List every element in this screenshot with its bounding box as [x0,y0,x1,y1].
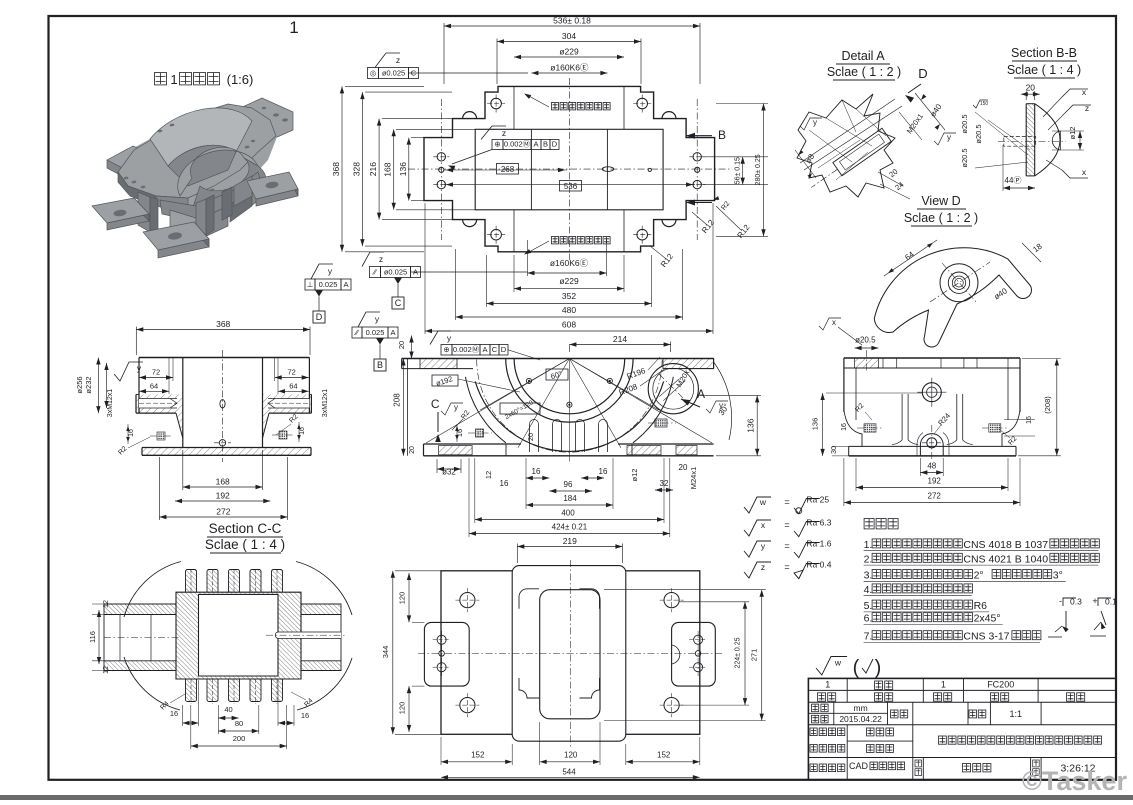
svg-text:192: 192 [928,477,942,486]
svg-text:ø20.5: ø20.5 [974,124,983,143]
svg-text:Ra 1.6: Ra 1.6 [806,538,831,548]
svg-text:80: 80 [235,719,243,728]
svg-text:B: B [543,140,548,149]
svg-text:-: - [1059,596,1062,606]
bore wall lines [530,129,532,210]
corner hooks [519,589,539,609]
svg-text:M24x1: M24x1 [689,467,698,490]
svg-text:0.025: 0.025 [319,280,338,289]
svg-text:A: A [343,280,348,289]
3D isometric part label [155,73,167,85]
bottom teeth band [176,694,301,696]
svg-text:(1:6): (1:6) [227,72,254,87]
svg-text:3.: 3. [864,570,873,582]
svg-text:y: y [813,118,817,127]
datum flag //-0.025-A lower [370,267,381,278]
tab hole trios [437,635,446,644]
svg-text:192: 192 [216,491,230,501]
svg-text:A: A [533,140,538,149]
svg-text:20: 20 [526,433,535,441]
B-B datum flags [1062,89,1088,97]
assembly note labels [552,103,559,110]
B-B bulge [1035,104,1060,176]
svg-text:16: 16 [532,467,541,476]
svg-text:=: = [784,541,789,551]
svg-text:(: ( [853,657,860,679]
title block [808,678,1116,779]
svg-text:⊕: ⊕ [443,345,449,354]
bolt circles on arch [526,378,531,383]
ribs [901,394,903,440]
svg-text:0.002Ⓜ: 0.002Ⓜ [504,140,531,149]
svg-text:A: A [697,387,705,401]
svg-text:Ra 25: Ra 25 [806,494,829,504]
View D body [874,248,1031,347]
svg-text:ø160K6Ⓔ: ø160K6Ⓔ [550,63,589,73]
svg-text:304: 304 [562,31,576,41]
center lines [408,168,730,170]
svg-text:ø0.025: ø0.025 [384,268,407,277]
svg-text:ø256: ø256 [75,376,84,393]
svg-text:400: 400 [561,509,575,518]
svg-text:536: 536 [564,182,578,191]
svg-text:⊕: ⊕ [494,140,500,149]
left wall and flange [407,359,409,456]
svg-text:3xM12x1: 3xM12x1 [107,389,114,418]
svg-text:D: D [316,312,323,322]
svg-text:mm: mm [854,703,868,713]
svg-text:168: 168 [383,162,393,176]
bottom plate [142,447,311,449]
svg-text:72: 72 [152,368,160,377]
svg-text:y: y [947,133,951,142]
lug bumps [463,112,477,119]
svg-text:x: x [832,318,836,327]
svg-text:D: D [501,345,507,354]
svg-text:32: 32 [660,479,669,488]
svg-text:Ra 6.3: Ra 6.3 [806,517,831,527]
svg-text:150: 150 [980,101,989,107]
svg-text:+: + [1092,596,1097,606]
svg-text:16: 16 [170,709,178,718]
B-B hidden stud [1004,137,1036,147]
inner rounded rect [540,590,600,719]
A arrow and label [681,399,690,406]
top view outline [424,86,715,251]
svg-text:ø12: ø12 [1068,127,1077,140]
svg-text:ø160K6Ⓔ: ø160K6Ⓔ [550,258,589,268]
svg-text:CNS 3-17: CNS 3-17 [963,631,1009,643]
svg-text:20: 20 [409,446,416,454]
tolerance frame front view [441,345,452,356]
svg-text:4.: 4. [864,584,873,596]
svg-text:0.1: 0.1 [1105,597,1117,607]
datum flag O-0.025-C [368,68,379,79]
right slot feature [272,632,341,639]
svg-text:272: 272 [216,507,230,517]
bottom view dims [408,573,410,622]
svg-text:280± 0.25: 280± 0.25 [755,154,762,185]
svg-text:=: = [784,497,789,507]
svg-text:ø20.5: ø20.5 [960,148,969,167]
svg-text:7.: 7. [864,631,873,643]
svg-text:Sclae ( 1 : 2 ): Sclae ( 1 : 2 ) [827,65,901,79]
svg-text:116: 116 [88,631,97,643]
svg-text:268: 268 [501,165,515,174]
right flange hatched [308,358,310,414]
right view body [844,412,860,446]
svg-text:20: 20 [679,463,688,472]
phi256 phi232 dims [97,358,99,414]
svg-text:ø229: ø229 [559,47,579,57]
svg-text:136: 136 [811,418,820,431]
svg-text:352: 352 [562,291,576,301]
svg-text:12: 12 [103,666,110,674]
Detail A screw feature [807,128,892,194]
bolt下 hatch [655,419,667,427]
svg-text:184: 184 [563,494,577,503]
svg-text:CNS 4021 B 1040: CNS 4021 B 1040 [963,553,1048,565]
svg-text:328: 328 [351,162,361,176]
svg-text:16: 16 [301,711,309,720]
center lines bottom view [569,560,571,748]
svg-text:Sclae ( 1 : 2 ): Sclae ( 1 : 2 ) [904,211,978,225]
208 dim left front [402,359,404,456]
svg-text:2°: 2° [974,570,984,582]
svg-text:64: 64 [289,382,297,391]
svg-text:Section B-B: Section B-B [1011,46,1077,60]
svg-text:⊥: ⊥ [307,280,314,289]
left screw hatch [476,429,484,437]
219 dim top [517,546,622,548]
svg-text:6.: 6. [864,613,873,625]
datum flag //-0.025-A second [352,327,362,338]
phi194 label [432,375,458,386]
svg-text:1: 1 [825,680,830,690]
screw hatches right view [864,424,876,432]
white bolt channel left [139,399,177,409]
big arch arcs [514,359,625,414]
notes (Chinese) [864,519,874,529]
svg-text:16: 16 [500,479,509,488]
svg-text:1: 1 [941,680,946,690]
svg-text:ø20.5: ø20.5 [960,114,969,133]
section B arrows [686,133,695,139]
svg-text:208: 208 [393,393,402,407]
svg-text:0.025: 0.025 [366,328,385,337]
svg-text:z: z [761,562,765,572]
svg-text:1: 1 [170,72,177,87]
svg-text:72: 72 [288,368,296,377]
svg-text:96: 96 [564,480,573,489]
svg-text:3°: 3° [1053,570,1063,582]
svg-text:Ra 0.4: Ra 0.4 [806,559,831,569]
front view top band [402,358,714,360]
svg-text:20: 20 [397,341,406,349]
svg-text:44Ⓟ: 44Ⓟ [1005,176,1022,185]
top band tabs [882,358,884,368]
svg-text:C: C [431,397,440,411]
corner arcs [124,562,181,618]
B-B dims [1021,93,1040,95]
angle labels [546,369,568,380]
svg-text:30: 30 [831,446,838,454]
side tabs [424,622,469,686]
y flag left [114,362,143,381]
(208) dim [1056,359,1058,456]
svg-text:ø232: ø232 [84,376,93,393]
screw hatch marks [157,432,165,440]
svg-text:536± 0.18: 536± 0.18 [553,16,591,26]
svg-text:w: w [834,658,842,668]
svg-text:152: 152 [657,751,671,760]
right dims [742,157,744,185]
svg-text:C: C [395,298,402,308]
bottom gray strip [0,795,1133,800]
surface roughness legend [744,497,771,513]
inner wall lines [855,368,857,420]
svg-text:View D: View D [921,194,960,208]
svg-text:A: A [482,345,487,354]
corner hole crosshairs [491,98,502,109]
svg-text:=: = [784,520,789,530]
svg-text:D: D [552,140,558,149]
top dims [444,25,700,27]
svg-text:136: 136 [746,418,756,432]
four bolt crosshairs [460,593,475,608]
svg-text:168: 168 [216,477,230,487]
svg-text:214: 214 [613,334,627,344]
svg-text:ø12: ø12 [630,469,639,482]
front top dims [569,344,670,346]
svg-text:z: z [396,55,400,65]
svg-text:152: 152 [471,751,485,760]
svg-text:B: B [377,360,383,370]
general roughness mark [816,657,847,675]
left dims [341,86,343,251]
svg-text:56± 0.15: 56± 0.15 [735,157,742,184]
left section view top face [139,357,309,359]
datum flag perp-0.025-A [305,279,315,290]
svg-text:2x45°: 2x45° [974,613,1001,625]
svg-text:CNS 4018 B 1037: CNS 4018 B 1037 [963,539,1048,551]
svg-text:424± 0.21: 424± 0.21 [552,523,588,532]
B-B wall [1025,104,1027,176]
svg-text:ø0.025: ø0.025 [382,69,405,78]
svg-text:368: 368 [216,319,230,329]
svg-text:Detail A: Detail A [841,49,885,63]
ellipse feature [602,167,613,172]
svg-text:=: = [784,562,789,572]
svg-text:z: z [379,254,383,264]
right view top band [844,357,1020,359]
svg-text:2.: 2. [864,553,873,565]
side hole trios [437,153,445,161]
lower hole with arch [927,438,937,448]
svg-text:y: y [454,403,458,412]
svg-text:120: 120 [398,702,407,715]
svg-text:z: z [1085,103,1089,113]
svg-text:Sclae ( 1 : 4 ): Sclae ( 1 : 4 ) [205,537,285,552]
svg-text:A: A [390,328,395,337]
svg-text:2015.04.22: 2015.04.22 [839,714,882,724]
svg-text:120: 120 [564,751,578,760]
svg-text:271: 271 [750,649,759,662]
136 dim right [756,395,758,455]
svg-text:5.: 5. [864,600,873,612]
Detail A blob [797,94,895,197]
svg-text:w: w [759,497,767,507]
View D circles [940,264,978,302]
svg-text:0.002Ⓜ: 0.002Ⓜ [453,345,480,354]
svg-text:ø20.5: ø20.5 [855,336,876,345]
svg-text:ø229: ø229 [559,276,579,286]
svg-text:272: 272 [928,492,942,501]
svg-text:20: 20 [1026,83,1036,93]
bl dims [98,610,100,664]
radial fan lines [480,359,569,411]
svg-text:608: 608 [562,320,576,330]
teeth top [186,570,197,593]
svg-text:216: 216 [368,162,378,176]
rib slots under arch [529,424,531,452]
svg-text:544: 544 [562,768,576,777]
bottom view outer rect [441,571,700,735]
svg-text:12: 12 [484,471,493,479]
svg-text:16: 16 [1026,416,1033,424]
svg-text:z: z [502,128,506,138]
svg-text:200: 200 [233,734,246,743]
svg-text:16: 16 [841,423,848,431]
svg-text:48: 48 [927,462,936,471]
left section dims [136,329,310,331]
inner housing rectangle [475,129,663,210]
svg-text:3xM12x1: 3xM12x1 [322,389,329,418]
svg-text:136: 136 [398,162,408,176]
central block [182,358,184,448]
svg-text:Section C-C: Section C-C [209,521,282,536]
svg-text:368: 368 [331,162,341,176]
svg-text:©Tasker: ©Tasker [1022,766,1127,796]
svg-text:Sclae ( 1 : 4 ): Sclae ( 1 : 4 ) [1007,63,1081,77]
svg-text:CAD: CAD [849,761,869,771]
svg-text:◎: ◎ [370,69,377,78]
svg-text:): ) [875,657,882,679]
bl outer walls hatched [176,592,301,679]
bottom dims [183,486,263,488]
svg-text:344: 344 [381,646,390,659]
boxed dim 536 [444,184,695,186]
svg-text:219: 219 [563,536,577,546]
B-B roughness tiny [973,100,988,108]
svg-text:R6: R6 [974,600,988,612]
svg-text:1:1: 1:1 [1009,709,1022,719]
position tolerance frame [492,140,503,150]
svg-text:1: 1 [289,18,298,37]
svg-text:224± 0.25: 224± 0.25 [735,637,742,668]
svg-text:B: B [718,128,726,142]
svg-text:FC200: FC200 [987,680,1014,690]
center circles [922,383,941,402]
left arm [104,604,176,615]
central vertical band [512,566,626,742]
left flange hatched [136,358,183,442]
edge condition symbols [1063,598,1076,606]
right arm [301,604,341,615]
phi20.5 plug [855,358,879,368]
svg-text:(208): (208) [1043,396,1052,414]
svg-text:C: C [492,345,498,354]
right boss circle M20x1 [648,364,698,414]
svg-text:120: 120 [398,592,407,605]
svg-text:16: 16 [599,467,608,476]
3D isometric part [236,98,293,142]
svg-text:D: D [918,66,927,81]
boxed dim 268 [444,169,567,171]
svg-text:0.3: 0.3 [1070,597,1082,607]
svg-text:64: 64 [150,382,158,391]
flange feet hatches [439,446,473,455]
svg-text:480: 480 [562,305,576,315]
svg-text:1.: 1. [864,539,873,551]
svg-text:40: 40 [224,705,232,714]
